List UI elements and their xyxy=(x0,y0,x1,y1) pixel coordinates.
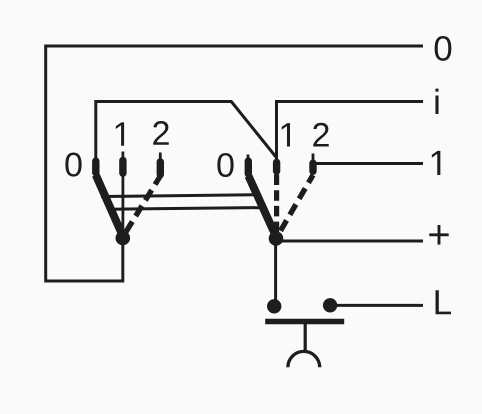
switch S2 contact 0 stub xyxy=(245,161,252,174)
wire tail above S2 contact 0 xyxy=(247,155,250,161)
label 1 (S1 contact 1) xyxy=(116,122,124,145)
switch S2 contact 1 stub xyxy=(273,162,280,171)
switch S2 dashed lever to contact 1 xyxy=(274,175,279,237)
wire net 0 (top line, left side, bottom of box, up to S1 common) xyxy=(46,46,423,281)
label L (net L, right) xyxy=(436,290,451,314)
label 0 (S1 contact 0) xyxy=(65,153,81,177)
junction terminal right (net L) xyxy=(323,298,337,312)
wire net i right segment down to S2 contact 1 xyxy=(277,102,424,161)
label 1 (S2 contact 1) xyxy=(282,123,290,146)
wire S1 contact 1 to common (thin) xyxy=(122,152,125,236)
wire net L from right bell terminal xyxy=(330,304,423,307)
switch S2 common pivot xyxy=(269,231,284,246)
switch S1 contact 1 stub xyxy=(119,160,126,173)
wire net i left segment with diagonal to S2 contact 1 xyxy=(96,102,276,161)
switch S2 dashed lever to contact 2 xyxy=(278,175,314,236)
bell gong arc xyxy=(288,351,320,367)
bell stem xyxy=(304,324,307,352)
wire tail above S2 contact 2 xyxy=(312,154,315,161)
switch S1 lever (position 0) xyxy=(96,175,123,236)
label i (net i, right) xyxy=(435,89,438,114)
switch S1 dashed lever to contact 2 xyxy=(124,176,160,235)
switch S1 contact 2 stub xyxy=(157,162,164,175)
wire net 1 from S2 contact 2 xyxy=(314,162,423,165)
label 0 (S2 contact 0) xyxy=(217,153,233,177)
label 0 (net 0, right) xyxy=(435,36,452,61)
switch S1 contact 0 stub xyxy=(92,161,99,173)
switch S1 common pivot xyxy=(116,231,131,246)
switch S2 contact 2 stub xyxy=(309,163,316,171)
wire tail above S1 contact 2 xyxy=(159,153,162,161)
bell mounting bar xyxy=(265,319,344,325)
wire coupling lower between levers xyxy=(111,208,263,210)
label 1 (net 1, right) xyxy=(432,151,441,175)
label + (net +, right) xyxy=(429,225,448,245)
label 2 (S1 contact 2) xyxy=(153,121,168,145)
wire S2 common down to bell terminal xyxy=(274,238,277,306)
wire net + from S2 common xyxy=(276,240,423,243)
junction terminal left (bell) xyxy=(267,299,281,313)
switch S2 lever (position 0) xyxy=(249,176,277,237)
wire coupling upper between levers xyxy=(101,195,256,197)
label 2 (S2 contact 2) xyxy=(313,123,328,147)
